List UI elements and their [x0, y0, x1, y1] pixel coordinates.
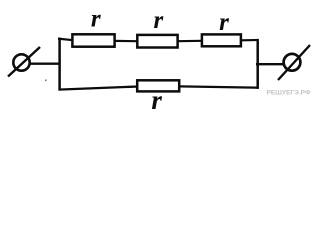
wire top rail segment 2	[115, 40, 138, 42]
wire top rail segment 1	[58, 39, 73, 41]
svg-text:r: r	[91, 6, 101, 33]
terminal left slash	[8, 47, 40, 77]
wire right vertical rail	[256, 39, 259, 89]
svg-text:РЕШУЕГЭ.РФ: РЕШУЕГЭ.РФ	[267, 90, 311, 97]
wire top rail segment 4	[241, 39, 258, 41]
resistor R2 (box)	[137, 35, 177, 48]
wire left vertical rail	[58, 38, 61, 91]
noise dot	[45, 80, 47, 82]
wire top rail segment 3	[178, 40, 203, 43]
svg-text:r: r	[219, 9, 229, 36]
wire bottom rail segment 1	[59, 87, 139, 90]
svg-text:r: r	[154, 7, 164, 34]
terminal left (circle)	[13, 54, 29, 70]
terminal right (circle)	[284, 54, 301, 71]
svg-text:r: r	[151, 85, 162, 115]
wire left terminal to node	[30, 63, 60, 65]
resistor R4 (box)	[137, 80, 179, 91]
wire bottom rail segment 2	[180, 86, 259, 87]
resistor R3 (box)	[202, 34, 241, 46]
resistor R1 (box)	[72, 34, 114, 46]
wire node to right terminal	[256, 63, 285, 65]
terminal right slash	[278, 45, 310, 80]
